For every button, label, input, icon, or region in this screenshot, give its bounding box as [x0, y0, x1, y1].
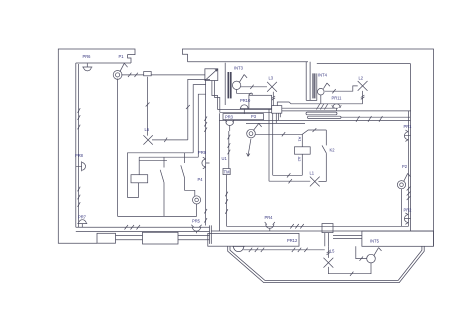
tick	[250, 85, 253, 89]
porch rect1	[97, 233, 116, 243]
socket PR10	[240, 105, 249, 114]
svg-text:PR2: PR2	[404, 207, 413, 212]
svg-text:PR1: PR1	[404, 124, 413, 129]
wall outer right block	[182, 49, 433, 246]
shaft bar 2	[230, 72, 232, 98]
junction box J1	[272, 106, 282, 114]
svg-text:P1: P1	[119, 54, 125, 59]
wall hall left piece	[224, 63, 226, 105]
wire P3 diagonal	[247, 139, 251, 157]
wire y123	[246, 122, 305, 124]
svg-text:A2: A2	[297, 157, 302, 162]
tick	[282, 132, 285, 136]
lamp P2 stem	[404, 173, 411, 181]
svg-text:PR9: PR9	[198, 150, 207, 155]
wire horiz c	[139, 156, 198, 158]
tick	[287, 173, 290, 177]
wires box right bundle	[277, 102, 362, 106]
svg-text:PR12: PR12	[287, 238, 298, 243]
junction rect F1	[144, 72, 152, 76]
wire bottom room1	[118, 204, 197, 217]
wall room1 bottom inner	[76, 226, 210, 228]
svg-text:INT4: INT4	[318, 72, 328, 77]
wire socket column	[205, 81, 207, 226]
svg-text:L2: L2	[359, 75, 364, 80]
wall room3 top inner	[317, 63, 411, 65]
socket PR6	[82, 63, 92, 71]
switch INT3	[232, 81, 240, 89]
switch S1	[160, 157, 164, 216]
contact line K2	[302, 130, 326, 182]
panel diagonal	[205, 69, 218, 81]
wire panel to box b	[215, 81, 272, 113]
lamp P1	[113, 71, 122, 80]
svg-text:L6: L6	[145, 127, 150, 132]
socket PR12 dome	[232, 246, 244, 251]
wire rect down to L6	[147, 77, 149, 136]
wire INT4 down	[320, 95, 322, 104]
socket PR4	[265, 222, 275, 231]
coil 1	[306, 112, 337, 115]
wire right wall	[408, 111, 410, 226]
outlet block stem	[138, 157, 140, 175]
tick	[164, 138, 167, 143]
TM box	[223, 169, 230, 175]
lamp L1	[310, 177, 320, 187]
ticks	[249, 248, 308, 252]
lamp L3	[267, 82, 277, 92]
PR12 rect	[208, 233, 299, 246]
tick marks left wire upper	[78, 108, 81, 129]
svg-text:PR6: PR6	[83, 54, 92, 59]
wire left wall	[78, 64, 80, 227]
wire L3 down to box	[272, 92, 276, 106]
relay stem down	[301, 154, 303, 175]
lamp P1 switch stem	[120, 63, 128, 72]
wires box down	[273, 113, 281, 175]
svg-text:L3: L3	[269, 75, 274, 80]
wire balcony horizontal	[243, 249, 324, 251]
wire TM down	[226, 175, 228, 227]
svg-text:INT3: INT3	[234, 65, 244, 70]
svg-text:P2: P2	[402, 164, 408, 169]
porch link lines 1	[116, 236, 143, 240]
svg-text:U1: U1	[222, 156, 228, 161]
svg-text:PR4: PR4	[265, 215, 274, 220]
lamp L5	[324, 258, 334, 268]
wire INT3 down	[237, 89, 253, 95]
wire P2 down	[401, 189, 403, 227]
ticks on top wall wire	[356, 116, 383, 122]
switch S2	[181, 153, 195, 196]
tick	[350, 272, 353, 276]
svg-text:A1: A1	[298, 137, 303, 142]
wire panel drop a	[188, 79, 210, 139]
tick marks left wire lower	[78, 187, 81, 207]
socket PR1	[404, 130, 410, 141]
wire rect to panel	[151, 74, 205, 76]
svg-text:L1: L1	[310, 171, 315, 176]
svg-text:PR11: PR11	[332, 96, 343, 101]
loop inner	[273, 174, 303, 176]
svg-text:PR8: PR8	[75, 153, 84, 158]
wire L6 right	[152, 139, 188, 141]
panel T	[205, 69, 218, 81]
ticks wire U1	[228, 135, 231, 155]
INT5 rect	[362, 231, 434, 246]
ticks bundle	[317, 104, 329, 110]
balcony inner	[230, 246, 422, 280]
wall step verticals bottom	[210, 225, 212, 244]
loop outer	[269, 180, 310, 182]
relay K2 coil	[295, 147, 311, 154]
ticks	[128, 73, 138, 77]
svg-text:PR5: PR5	[192, 219, 201, 224]
svg-text:TM: TM	[224, 170, 231, 175]
shaft bar 1	[228, 72, 230, 98]
wire single right	[341, 116, 410, 118]
wire P3 to relay	[255, 134, 302, 147]
tick	[186, 105, 190, 109]
wire L5 to button	[328, 263, 371, 274]
socket PR9	[202, 157, 210, 169]
outlet block rect	[131, 175, 148, 183]
lamp P4	[193, 196, 201, 204]
switch INT4	[318, 88, 325, 95]
porch rect2	[143, 232, 179, 244]
wire L2 down return	[361, 91, 365, 104]
wires J2 down	[325, 233, 329, 247]
socket PR3 dome	[225, 120, 235, 126]
svg-text:K2: K2	[330, 148, 336, 153]
wire U1	[228, 126, 231, 169]
wall room1 bottom lower	[76, 231, 210, 233]
wire panel drop b	[193, 85, 206, 153]
wire horiz d	[139, 159, 167, 161]
svg-text:PR10: PR10	[240, 98, 251, 103]
coil 2 hairpin	[308, 116, 342, 118]
socket PR5	[191, 225, 201, 234]
wire L1 to K2 line	[319, 181, 327, 183]
svg-text:P4: P4	[198, 177, 204, 182]
lamp P2	[397, 181, 405, 189]
door bar 1	[312, 73, 313, 98]
push button INT5	[367, 254, 376, 263]
appliance rect above box	[249, 95, 272, 108]
wall outer left block	[58, 49, 135, 243]
wire bottom big room	[227, 225, 409, 227]
svg-text:PR3: PR3	[225, 115, 234, 120]
wire horiz b	[128, 153, 194, 198]
lamp P3	[247, 129, 256, 138]
svg-text:PR7: PR7	[78, 214, 87, 219]
wall room1 top inner	[76, 62, 131, 64]
wall hall right	[218, 113, 220, 231]
lamp P3 switch stem	[253, 123, 261, 130]
wire panel drop c	[198, 94, 205, 157]
wall room3 left piece	[316, 73, 318, 100]
wall partition room2/3	[306, 62, 317, 101]
wire L5 stem	[327, 246, 331, 258]
ticks right wire	[407, 187, 411, 201]
wall big room bottom	[211, 230, 433, 232]
svg-text:L5: L5	[330, 248, 335, 253]
door bar 2	[314, 73, 315, 98]
wall right inner	[410, 64, 412, 231]
wires J2 to INT5	[333, 235, 362, 238]
tick	[332, 89, 335, 93]
tick	[313, 128, 317, 132]
ticks socket column	[204, 116, 207, 222]
wire P1 down	[117, 79, 119, 217]
socket PR8	[76, 161, 86, 171]
ticks bottom wire	[290, 224, 304, 229]
svg-text:INT5: INT5	[370, 238, 380, 243]
wire appliance down	[268, 109, 270, 182]
socket PR2	[404, 213, 410, 224]
wire P1 to junction rect	[121, 74, 143, 76]
wire INT3 to L3	[241, 86, 267, 88]
socket PR7	[77, 220, 87, 227]
socket PR11	[332, 104, 342, 111]
long rect P3	[223, 114, 264, 120]
porch link lines 2	[178, 236, 210, 240]
junction box J2	[322, 224, 333, 233]
wire panel to box a	[212, 81, 272, 110]
tick	[289, 179, 292, 183]
ticks TM wire	[225, 192, 228, 214]
wall room1 left inner	[75, 63, 77, 227]
lamp L6	[143, 135, 152, 144]
ticks bottom wire	[125, 225, 141, 230]
tick	[146, 103, 150, 107]
wall room2 top inner	[188, 61, 309, 63]
wall big room top	[219, 119, 410, 121]
lamp L2	[358, 81, 368, 91]
balcony outer	[228, 246, 425, 282]
wire INT4 to L2	[325, 86, 358, 91]
wire button left up	[356, 246, 367, 260]
svg-text:P3: P3	[251, 114, 257, 119]
